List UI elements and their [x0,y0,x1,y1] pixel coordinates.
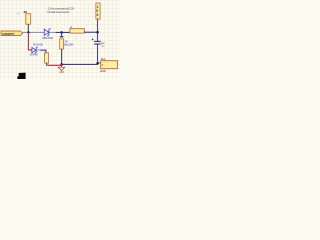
wire port to diode D1 [23,31,45,33]
wire junction B down [61,32,63,36]
svg-text:PLUS GND: PLUS GND [33,44,43,47]
junction E [96,62,99,65]
resistor R3 body (top right) [96,3,100,19]
junction C [60,63,63,66]
resistor R4 body [60,39,64,49]
svg-text:MBR 0540: MBR 0540 [42,36,53,40]
resistor R4 bottom lead [61,49,63,64]
pin wire to connector box [98,62,101,64]
svg-text:GND: GND [59,71,64,74]
red wire R5 bottom to ground junction [46,63,48,65]
resistor R5 body [45,53,49,63]
svg-text:GND8: GND8 [100,70,107,73]
connector P1 body [101,61,118,69]
resistor R1 body [26,14,31,25]
wire cap C1 down [97,45,99,65]
svg-text:My dark current sensor: My dark current sensor [47,10,69,14]
resistor R2 body [70,29,84,33]
wire D2 to R5 [40,50,46,53]
capacitor C1 plates [94,40,101,42]
resistor R1 bottom pin [27,24,29,32]
resistor R3 bottom lead [97,19,99,32]
bottom wire [62,63,98,65]
wire junction D to cap C1 [97,32,99,41]
junction B [60,31,63,34]
port CON_BATT [1,31,23,36]
wire D1 to R2 [56,31,70,33]
junction A [27,31,30,34]
junction D [96,31,99,34]
svg-text:CON BATT: CON BATT [2,32,15,36]
no-erc bar on R4 top [60,36,64,37]
ground symbol [58,64,64,74]
svg-text:k: k [97,13,99,17]
mouse cursor [17,73,25,79]
capacitor C1 plus sign [92,38,94,40]
red wire junction A down [28,32,32,50]
resistor R2 right pin wire [84,31,97,33]
diode D2 [32,47,40,53]
svg-text:3M3_0.5W: 3M3_0.5W [64,43,74,46]
diode D1 [44,29,55,36]
svg-text:BAT54W: BAT54W [30,53,39,56]
